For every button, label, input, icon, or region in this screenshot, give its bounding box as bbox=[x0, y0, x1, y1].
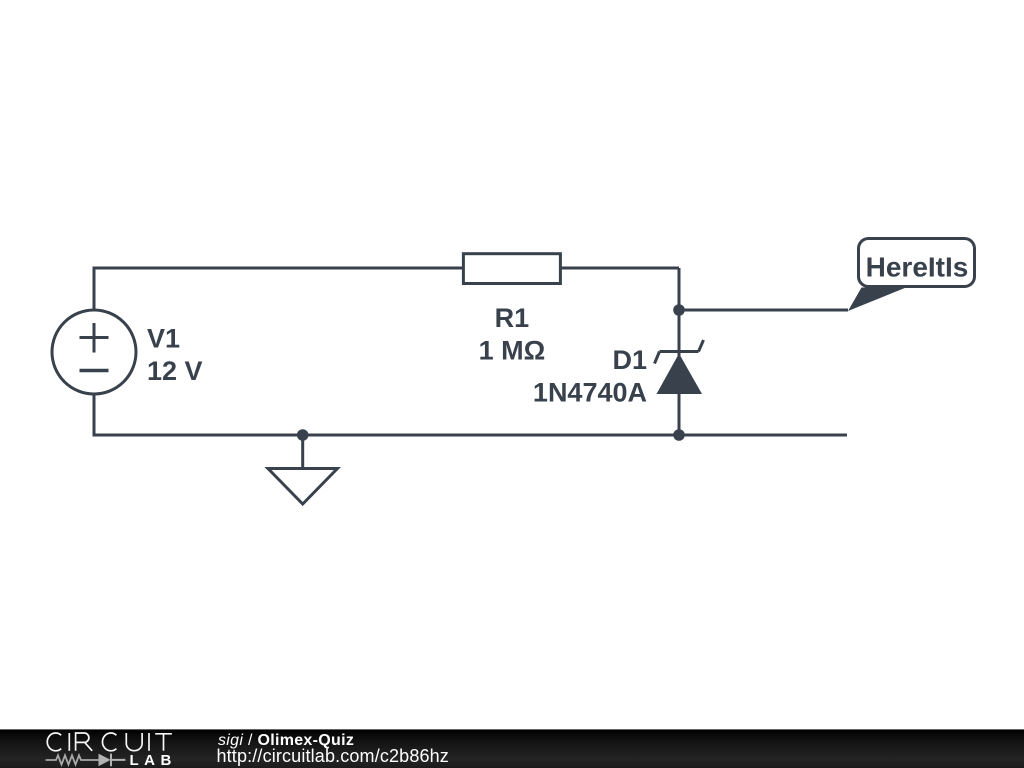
zener right hook bbox=[699, 340, 704, 352]
logo CIRCUIT wordmark: letter C bbox=[47, 733, 172, 751]
svg-text:http://circuitlab.com/c2b86hz: http://circuitlab.com/c2b86hz bbox=[217, 746, 449, 766]
logo letter C bbox=[102, 733, 116, 751]
flag HereItIs box bbox=[859, 239, 975, 287]
svg-text:HereItIs: HereItIs bbox=[866, 252, 969, 283]
node junction at flag branch bbox=[673, 304, 685, 316]
logo letter I bbox=[68, 733, 70, 751]
wire right vertical through D1 bbox=[678, 268, 681, 435]
voltage source V1 circle bbox=[52, 310, 136, 394]
wire left vertical V1 bottom bbox=[93, 392, 96, 437]
zener triangle bbox=[657, 354, 703, 395]
wire bottom rail bbox=[93, 434, 848, 437]
logo letter T bbox=[155, 734, 172, 751]
ground triangle bbox=[268, 469, 337, 505]
svg-text:12 V: 12 V bbox=[147, 356, 203, 386]
flag tail bbox=[848, 288, 906, 312]
svg-text:R1: R1 bbox=[495, 303, 530, 333]
svg-text:1 MΩ: 1 MΩ bbox=[479, 336, 546, 366]
resistor R1 body bbox=[463, 254, 560, 284]
wire top from V1 to R1 and node corner bbox=[94, 267, 679, 270]
logo diode bbox=[99, 754, 111, 767]
svg-text:1N4740A: 1N4740A bbox=[533, 378, 647, 408]
node junction bottom right bbox=[673, 429, 685, 441]
svg-text:D1: D1 bbox=[612, 345, 647, 375]
ground stem bbox=[301, 435, 304, 469]
zener left hook bbox=[655, 352, 660, 364]
svg-text:V1: V1 bbox=[147, 324, 180, 354]
logo resistor zigzag bbox=[46, 755, 99, 764]
wire flag branch bbox=[679, 309, 848, 312]
logo letter U bbox=[126, 733, 142, 751]
wire left vertical V1 top bbox=[93, 267, 96, 313]
V1 plus sign bbox=[80, 323, 109, 353]
logo letter I bbox=[148, 733, 150, 751]
logo diode bar bbox=[111, 754, 125, 767]
zener diode D1 cathode bar bbox=[660, 350, 699, 353]
svg-text:LAB: LAB bbox=[130, 752, 177, 768]
node junction ground bbox=[297, 429, 309, 441]
logo letter R bbox=[76, 733, 93, 751]
footer bar bbox=[0, 729, 1024, 768]
V1 minus sign bbox=[80, 369, 109, 372]
